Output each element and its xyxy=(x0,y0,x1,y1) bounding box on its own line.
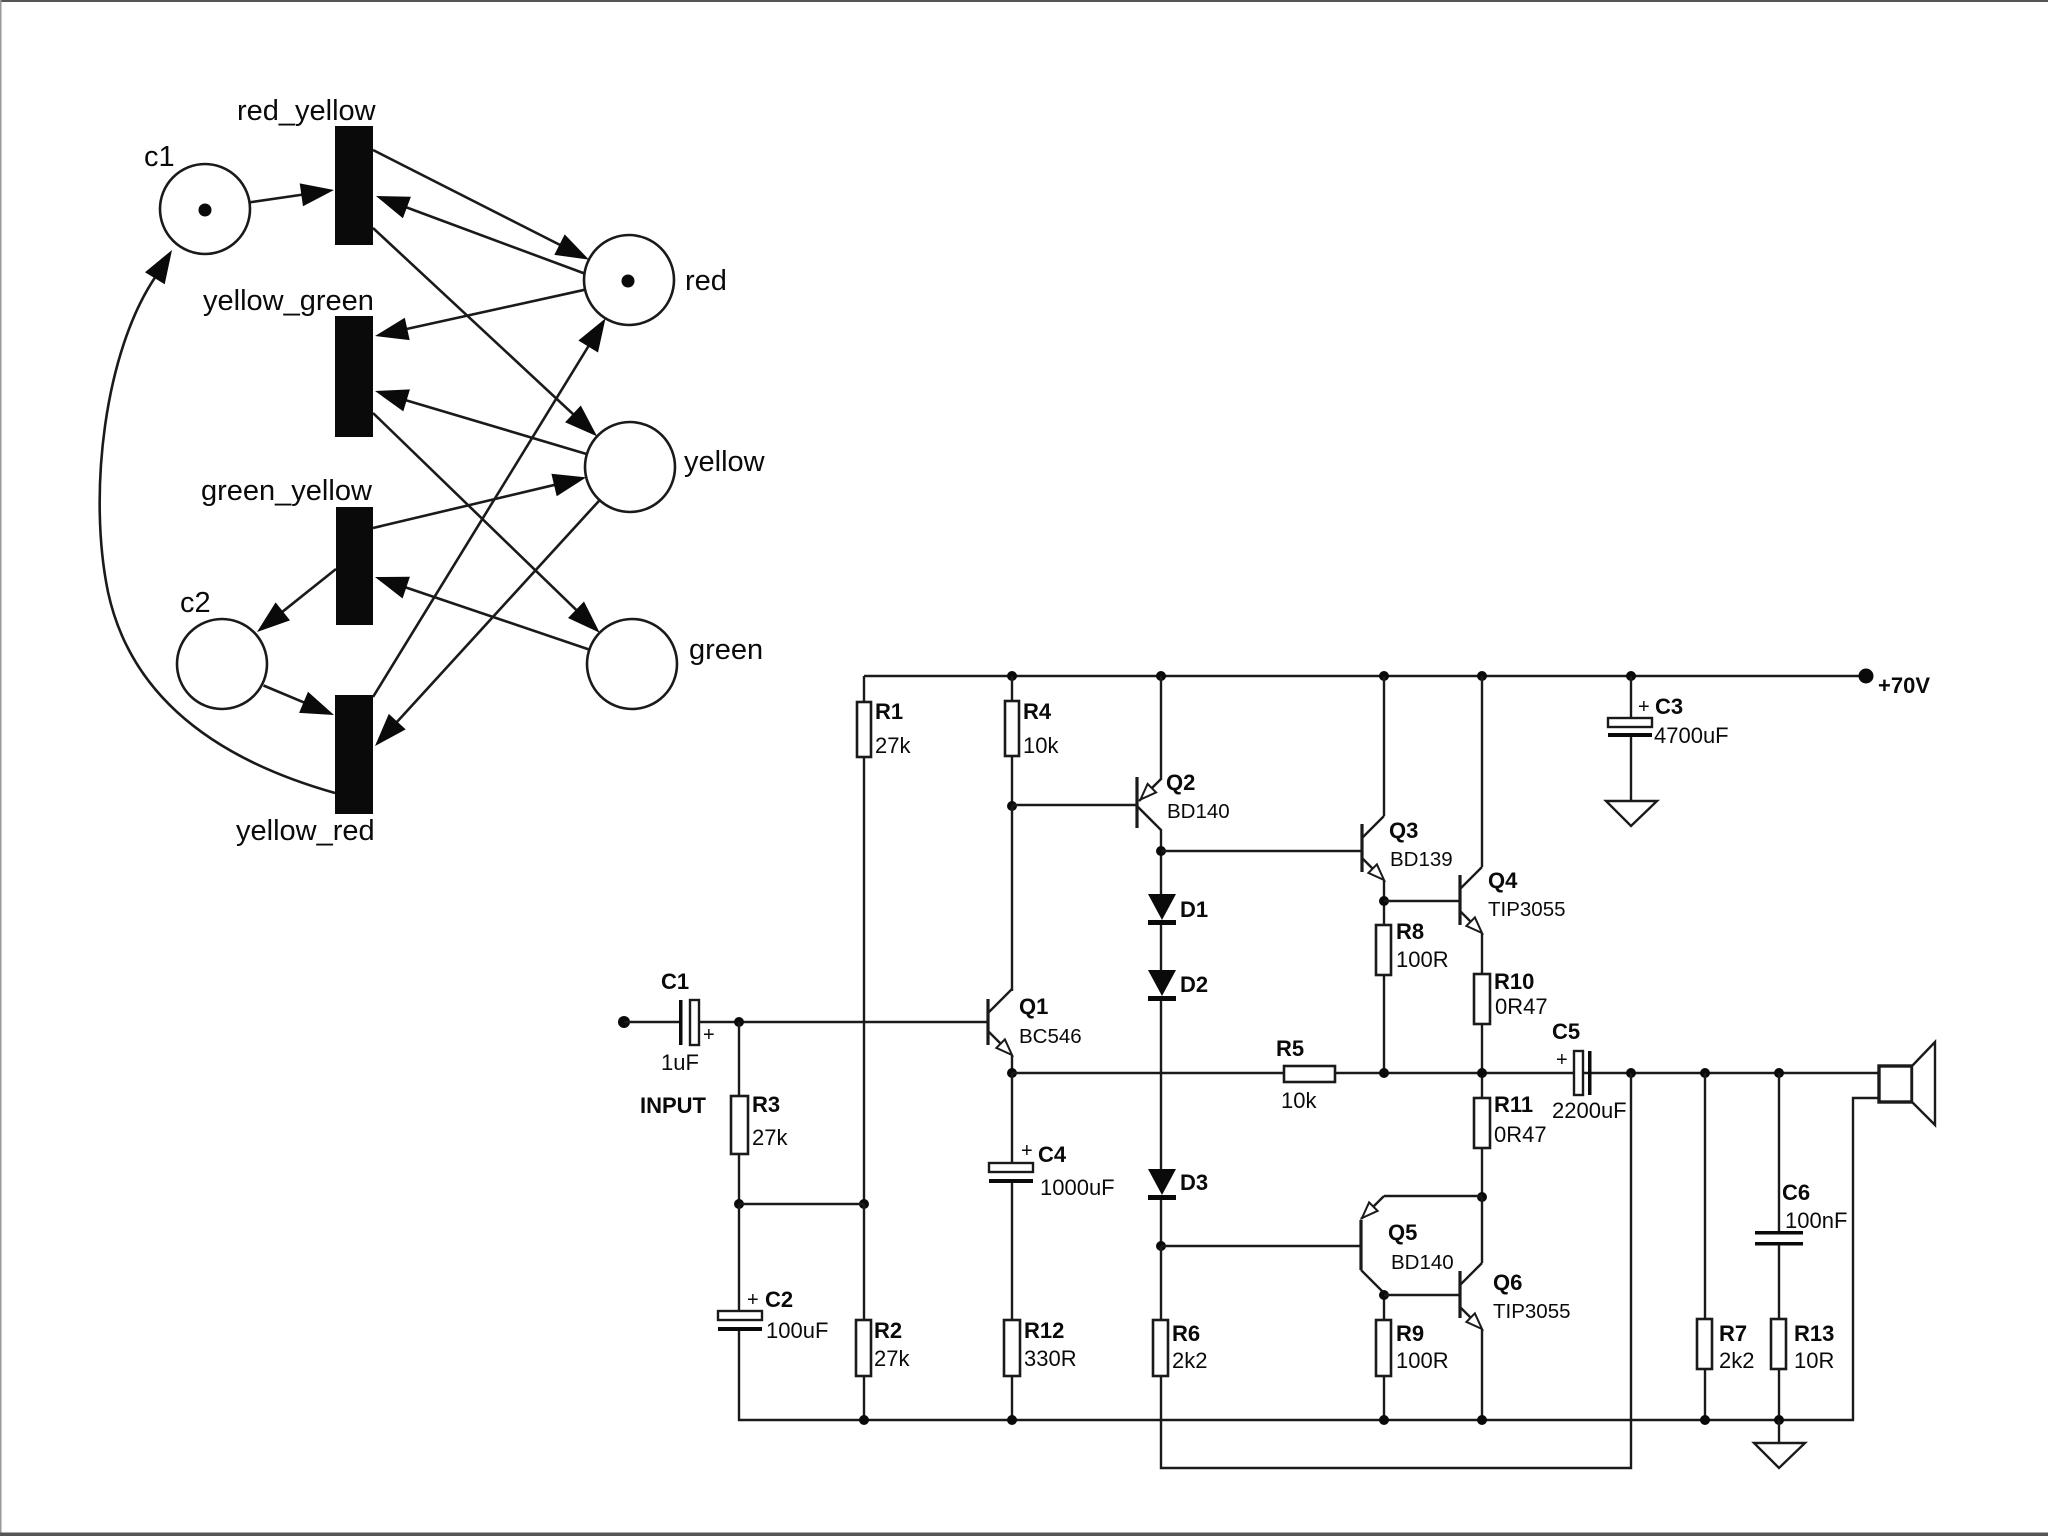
resistor R9 xyxy=(1376,1320,1449,1376)
svg-text:BD140: BD140 xyxy=(1391,1251,1454,1274)
wire Q5 collector to R9 node xyxy=(1383,1295,1385,1320)
node Q5 emitter / Q6 collector junction xyxy=(1477,1192,1487,1202)
svg-text:R4: R4 xyxy=(1023,699,1052,724)
svg-text:+70V: +70V xyxy=(1878,673,1930,698)
speaker LS1 xyxy=(1879,1042,1935,1125)
svg-text:D1: D1 xyxy=(1180,897,1208,922)
resistor R5 (horizontal) xyxy=(1276,1036,1335,1113)
svg-text:green_yellow: green_yellow xyxy=(201,475,373,507)
arc c2 to yellow_red xyxy=(264,686,335,716)
resistor R12 xyxy=(1004,1318,1077,1376)
node R1/R2/R3 divider junction xyxy=(859,1199,869,1209)
node output junction at C6 xyxy=(1774,1068,1784,1078)
node rail junction at Q2 emitter xyxy=(1156,671,1166,681)
svg-text:10k: 10k xyxy=(1281,1088,1317,1113)
wire rail to C3 xyxy=(1630,676,1632,718)
transition yellow_green (Petri net) xyxy=(203,285,374,437)
svg-text:R9: R9 xyxy=(1396,1321,1424,1346)
wire D1 to D2 xyxy=(1160,925,1162,970)
resistor R11 xyxy=(1474,1092,1547,1148)
svg-text:330R: 330R xyxy=(1024,1346,1077,1371)
svg-text:R5: R5 xyxy=(1276,1036,1304,1061)
svg-text:Q4: Q4 xyxy=(1488,868,1518,893)
wire junction to Q5 base xyxy=(1161,1245,1361,1247)
wire Q6 emitter to ground rail xyxy=(1481,1329,1483,1420)
arc green_yellow to yellow xyxy=(373,474,586,528)
diode D1 xyxy=(1148,894,1208,925)
transistor Q4 (NPN TIP3055) xyxy=(1460,867,1566,933)
capacitor C5 (2200uF electrolytic) xyxy=(1552,1019,1627,1123)
wire D3 to Q5-base node xyxy=(1160,1200,1162,1246)
place green (Petri net) xyxy=(587,619,763,709)
place yellow (Petri net) xyxy=(585,422,766,512)
svg-text:D2: D2 xyxy=(1180,972,1208,997)
wire input terminal to C1 xyxy=(624,1021,679,1023)
svg-text:R11: R11 xyxy=(1494,1092,1533,1117)
wire C1 to Q1 base (crosses R1 line) xyxy=(700,1021,988,1023)
svg-text:R13: R13 xyxy=(1794,1321,1834,1346)
resistor R13 xyxy=(1771,1319,1834,1373)
transistor Q1 (NPN BC546) xyxy=(988,989,1082,1055)
node +70V terminal xyxy=(1859,669,1874,684)
place c1 (Petri net, with token) xyxy=(144,141,250,254)
wire R8 to output line xyxy=(1383,975,1385,1073)
transistor Q2 (PNP BD140) xyxy=(1137,770,1230,830)
svg-text:0R47: 0R47 xyxy=(1494,1122,1547,1147)
wire C6 to R13 xyxy=(1778,1245,1780,1319)
wire rail to Q2 emitter xyxy=(1160,676,1162,780)
arc yellow_red to red xyxy=(373,318,606,697)
arc c1 to red_yellow xyxy=(250,183,335,206)
wire junction to Q3 base xyxy=(1161,850,1362,852)
wire Q2 collector to bias node xyxy=(1160,829,1162,894)
svg-text:INPUT: INPUT xyxy=(640,1093,707,1118)
arc yellow_red to c1 (curved) xyxy=(100,250,335,793)
svg-text:R3: R3 xyxy=(752,1092,780,1117)
place c2 (Petri net) xyxy=(177,587,267,709)
node C1 / R3 junction xyxy=(734,1017,744,1027)
svg-text:green: green xyxy=(689,634,763,666)
wire Q4 emitter to R10 xyxy=(1481,933,1483,974)
ground symbol at output Zobel xyxy=(1754,1443,1805,1468)
capacitor C4 (1000uF electrolytic) xyxy=(989,1140,1115,1200)
arc red_yellow to yellow xyxy=(373,228,597,436)
resistor R3 xyxy=(731,1092,788,1154)
diode D3 xyxy=(1148,1169,1208,1200)
svg-text:Q3: Q3 xyxy=(1389,818,1418,843)
wire output node to C6 xyxy=(1778,1073,1780,1232)
wire ground rail xyxy=(739,1098,1878,1420)
svg-text:2200uF: 2200uF xyxy=(1552,1098,1627,1123)
svg-text:R10: R10 xyxy=(1494,969,1534,994)
wire R5 to output node chain xyxy=(1335,1072,1878,1074)
wire rail corner to R1 xyxy=(863,676,865,702)
wire D2 to D3 (crosses output line) xyxy=(1160,1001,1162,1169)
wire rail to R4 xyxy=(1011,676,1013,701)
wire junction down to R3 xyxy=(738,1022,740,1096)
place red (Petri net, with token) xyxy=(584,235,727,325)
svg-text:R6: R6 xyxy=(1172,1321,1200,1346)
node Q6 emitter ground junction xyxy=(1477,1415,1487,1425)
node output junction at R8 xyxy=(1379,1068,1389,1078)
svg-text:C3: C3 xyxy=(1655,694,1683,719)
svg-text:0R47: 0R47 xyxy=(1495,994,1548,1019)
capacitor C2 (100uF electrolytic) xyxy=(718,1287,828,1343)
ground symbol below C3 xyxy=(1606,801,1657,826)
capacitor C3 (4700uF electrolytic) xyxy=(1608,694,1729,748)
transistor Q6 (NPN TIP3055) xyxy=(1460,1263,1571,1329)
resistor R6 xyxy=(1153,1320,1207,1376)
svg-text:C2: C2 xyxy=(765,1287,793,1312)
svg-text:+: + xyxy=(703,1024,715,1046)
wire Q5 emitter to Q6 collector node xyxy=(1384,1195,1482,1197)
wire junction down to C2 xyxy=(738,1204,740,1311)
svg-text:R12: R12 xyxy=(1024,1318,1064,1343)
svg-text:R7: R7 xyxy=(1719,1321,1747,1346)
node R12 ground junction xyxy=(1007,1415,1017,1425)
svg-text:Q6: Q6 xyxy=(1493,1270,1522,1295)
wire Q3 emitter to R8 node xyxy=(1383,880,1385,925)
capacitor C6 (100nF) xyxy=(1755,1180,1847,1246)
node R3 / C2 junction xyxy=(734,1199,744,1209)
wire divider node to R2 xyxy=(863,1204,865,1320)
arc green to green_yellow xyxy=(375,577,589,650)
svg-text:1uF: 1uF xyxy=(661,1050,699,1075)
arc yellow to yellow_green xyxy=(375,389,587,454)
node Q5 collector / R9 / Q6 base junction xyxy=(1379,1290,1389,1300)
svg-text:Q5: Q5 xyxy=(1388,1220,1417,1245)
svg-text:C1: C1 xyxy=(661,969,689,994)
svg-text:Q2: Q2 xyxy=(1166,770,1195,795)
svg-text:2k2: 2k2 xyxy=(1172,1348,1207,1373)
resistor R10 xyxy=(1474,969,1548,1024)
resistor R1 xyxy=(857,699,911,758)
svg-text:TIP3055: TIP3055 xyxy=(1488,898,1566,921)
resistor R4 xyxy=(1005,699,1059,758)
svg-text:C5: C5 xyxy=(1552,1019,1580,1044)
node rail junction at Q3 collector xyxy=(1379,671,1389,681)
wire junction down to C4 xyxy=(1011,1073,1013,1163)
svg-text:BD140: BD140 xyxy=(1167,800,1230,823)
node Q2 base / Q1 collector junction xyxy=(1007,801,1017,811)
node output junction at R10/R11 xyxy=(1477,1068,1487,1078)
arc yellow_green to green xyxy=(373,413,600,633)
node R7 ground junction xyxy=(1700,1415,1710,1425)
svg-text:27k: 27k xyxy=(752,1125,788,1150)
transistor Q5 (PNP BD140) xyxy=(1361,1196,1454,1293)
svg-text:c2: c2 xyxy=(180,587,211,619)
svg-text:Q1: Q1 xyxy=(1019,994,1048,1019)
svg-text:R2: R2 xyxy=(874,1318,902,1343)
wire R7 to ground rail xyxy=(1704,1369,1706,1420)
svg-text:BD139: BD139 xyxy=(1390,848,1453,871)
node R9 ground junction xyxy=(1379,1415,1389,1425)
wire R13 to ground rail xyxy=(1778,1369,1780,1420)
arc yellow to yellow_red xyxy=(375,500,600,746)
svg-text:yellow: yellow xyxy=(684,446,766,478)
arc green_yellow to c2 xyxy=(257,569,336,632)
svg-text:yellow_red: yellow_red xyxy=(236,815,375,847)
wire R11 to Q5/Q6 node xyxy=(1481,1147,1483,1197)
arc red_yellow to red xyxy=(373,150,589,260)
wire node to Q2 base xyxy=(1012,804,1137,806)
svg-text:27k: 27k xyxy=(874,1346,910,1371)
wire R10 to output line xyxy=(1481,1024,1483,1073)
capacitor C1 (1uF electrolytic) xyxy=(661,969,715,1075)
svg-text:100R: 100R xyxy=(1396,947,1449,972)
svg-text:4700uF: 4700uF xyxy=(1654,723,1729,748)
wire output line to R11 xyxy=(1481,1073,1483,1098)
node Q3 emitter / R8 / Q4 base junction xyxy=(1379,896,1389,906)
node ground rail junction at R13 xyxy=(1774,1415,1784,1425)
svg-text:2k2: 2k2 xyxy=(1719,1348,1754,1373)
svg-text:+: + xyxy=(1638,696,1650,718)
transition green_yellow (Petri net) xyxy=(201,475,373,625)
wire Q1 emitter line to R5 xyxy=(1012,1072,1284,1074)
transition red_yellow (Petri net) xyxy=(237,95,377,245)
node Q2 collector / D1 / Q3 base junction xyxy=(1156,846,1166,856)
node rail junction at Q4 collector xyxy=(1477,671,1487,681)
wire C3 to ground symbol xyxy=(1630,737,1632,801)
svg-text:yellow_green: yellow_green xyxy=(203,285,374,317)
svg-text:C4: C4 xyxy=(1038,1142,1067,1167)
svg-text:red: red xyxy=(685,265,727,297)
resistor R7 xyxy=(1697,1319,1754,1373)
wire R9 to ground rail xyxy=(1383,1376,1385,1420)
svg-text:red_yellow: red_yellow xyxy=(237,95,377,127)
node rail junction at C3 xyxy=(1626,671,1636,681)
node R2 ground junction xyxy=(859,1415,869,1425)
wire R1 to base-divider node xyxy=(863,757,865,1204)
svg-text:+: + xyxy=(1021,1140,1033,1162)
svg-text:10k: 10k xyxy=(1023,733,1059,758)
svg-text:100uF: 100uF xyxy=(766,1318,828,1343)
transition yellow_red (Petri net) xyxy=(236,695,375,847)
wire output node to R7 xyxy=(1704,1073,1706,1319)
svg-text:+: + xyxy=(1556,1049,1568,1071)
wire Q1 emitter to output node xyxy=(1011,1055,1013,1073)
svg-text:100R: 100R xyxy=(1396,1348,1449,1373)
transistor Q3 (NPN BD139) xyxy=(1362,816,1453,880)
node INPUT terminal xyxy=(618,1016,630,1028)
resistor R2 xyxy=(856,1318,910,1376)
wire R2 to ground rail xyxy=(863,1376,865,1420)
node Q1 emitter / C4 junction xyxy=(1007,1068,1017,1078)
wire junction to Q4 base xyxy=(1384,900,1460,902)
node output node after C5 xyxy=(1626,1068,1636,1078)
wire junction down to R6 xyxy=(1160,1246,1162,1320)
wire R3 to lower junction xyxy=(738,1154,740,1204)
node D3 / Q5 base / R6 junction xyxy=(1156,1241,1166,1251)
arc red to red_yellow xyxy=(376,196,585,274)
wire node down to Q1 collector xyxy=(1011,806,1013,991)
wire R12 to ground rail xyxy=(1011,1376,1013,1420)
diode D2 xyxy=(1148,970,1208,1001)
svg-text:10R: 10R xyxy=(1794,1348,1834,1373)
resistor R8 xyxy=(1376,919,1449,975)
wire ground junction to ground symbol xyxy=(1778,1420,1780,1443)
wire rail to Q3 collector xyxy=(1383,676,1385,816)
wire R4 to Q2-base node xyxy=(1011,756,1013,806)
svg-text:R8: R8 xyxy=(1396,919,1424,944)
wire rail to Q4 collector xyxy=(1481,676,1483,867)
node rail junction at R4 xyxy=(1007,671,1017,681)
wire junction to Q6 base xyxy=(1384,1294,1460,1296)
wire R3 node to divider node xyxy=(739,1203,864,1205)
svg-text:+: + xyxy=(747,1289,759,1311)
svg-text:D3: D3 xyxy=(1180,1170,1208,1195)
svg-text:R1: R1 xyxy=(875,699,903,724)
svg-text:C6: C6 xyxy=(1782,1180,1810,1205)
svg-text:27k: 27k xyxy=(875,733,911,758)
wire C5 node to bootstrap return (crosses ground rail) xyxy=(1161,1073,1631,1468)
svg-text:100nF: 100nF xyxy=(1785,1208,1847,1233)
wire +70V supply rail xyxy=(864,675,1866,677)
svg-text:1000uF: 1000uF xyxy=(1040,1175,1115,1200)
wire C4 to R12 xyxy=(1011,1183,1013,1320)
svg-text:c1: c1 xyxy=(144,141,175,173)
node output junction at R7 xyxy=(1700,1068,1710,1078)
svg-text:BC546: BC546 xyxy=(1019,1025,1082,1048)
arc red to yellow_green xyxy=(375,290,585,340)
wire Q6 collector up to node xyxy=(1481,1197,1483,1263)
svg-text:TIP3055: TIP3055 xyxy=(1493,1300,1571,1323)
